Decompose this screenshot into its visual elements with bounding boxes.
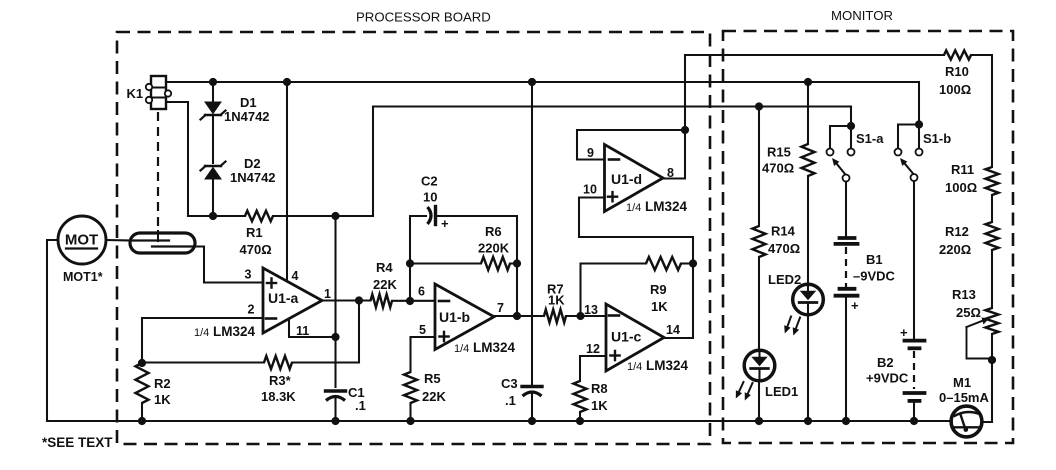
label R8 — [591, 381, 608, 396]
resistor R2 — [136, 363, 149, 403]
ground rail (bottom common) — [47, 420, 950, 422]
wire R6 branch right — [510, 262, 517, 264]
label B2 — [877, 355, 894, 370]
svg-text:R5: R5 — [424, 371, 441, 386]
wire motor to reed switch — [106, 239, 131, 242]
wire meter M1 top lead — [982, 360, 992, 422]
resistor R13 rheostat — [967, 308, 999, 359]
battery B2 — [900, 325, 925, 401]
svg-text:MOT: MOT — [65, 232, 98, 249]
label B2 value — [866, 371, 909, 386]
label R13 — [952, 287, 976, 302]
capacitor C3 — [522, 387, 542, 397]
wire U1-d pin 9 feedback — [577, 130, 685, 160]
wire R12-R13 link — [991, 250, 993, 308]
op-amp U1-d — [605, 145, 664, 212]
battery B1 — [836, 238, 860, 313]
svg-text:1/4: 1/4 — [626, 202, 641, 214]
junction V-/R1 rail — [331, 212, 339, 220]
svg-text:470Ω: 470Ω — [768, 241, 800, 256]
label R9 value — [651, 299, 668, 314]
label R5 value — [422, 389, 446, 404]
wire S1-a wiper to B1 — [845, 182, 847, 236]
svg-text:R13: R13 — [952, 287, 976, 302]
capacitor C1 — [326, 391, 346, 401]
LED2 emission arrows — [784, 317, 800, 336]
capacitor C2 — [428, 207, 450, 232]
label R6 — [485, 224, 502, 239]
svg-text:U1-c: U1-c — [611, 329, 642, 345]
resistor R14 — [753, 226, 766, 257]
svg-text:1K: 1K — [651, 299, 668, 314]
wire S1-b wiper to B2 — [913, 181, 915, 338]
wire R11-R12 link — [991, 195, 993, 222]
svg-text:100Ω: 100Ω — [939, 82, 971, 97]
reed switch — [130, 233, 195, 253]
label R3 value — [261, 389, 296, 404]
meter M1 — [951, 406, 982, 437]
pin 7 label U1-b — [497, 301, 504, 315]
junction output7/C2 — [513, 312, 521, 320]
svg-text:R2: R2 — [154, 376, 171, 391]
svg-text:10: 10 — [583, 183, 597, 197]
wire motor left lead to ground rail — [47, 240, 58, 421]
resistor R5 — [404, 372, 417, 403]
svg-text:R11: R11 — [951, 162, 974, 177]
label R2 — [154, 376, 171, 391]
pin 1 label U1-a — [324, 287, 331, 301]
svg-text:MOT1*: MOT1* — [63, 270, 103, 284]
label R4 value — [373, 277, 397, 292]
pin 9 label U1-d — [587, 146, 594, 160]
junction R6 right — [513, 259, 521, 267]
wire R2 to ground rail — [141, 403, 143, 421]
junction zener/V+ — [209, 78, 217, 86]
monitor title — [831, 8, 893, 23]
svg-text:D2: D2 — [244, 156, 261, 171]
junction B2/ground — [910, 417, 918, 425]
junction pin11/C1 — [331, 333, 339, 341]
label R14 value — [768, 241, 800, 256]
wire top supply rail from K1 to S1-b (net V+) — [166, 81, 919, 83]
svg-text:*SEE TEXT: *SEE TEXT — [42, 435, 113, 450]
junction R8/ground — [576, 417, 584, 425]
label R4 — [376, 260, 393, 275]
svg-text:1/4: 1/4 — [627, 361, 642, 373]
wire U1-b pin 5 to R5 — [411, 337, 436, 372]
wire U1-a output pin 1 — [322, 299, 371, 301]
svg-text:R15: R15 — [767, 145, 791, 160]
svg-text:22K: 22K — [422, 389, 446, 404]
svg-text:13: 13 — [584, 303, 598, 317]
junction B1/ground — [842, 417, 850, 425]
junction C1/ground — [331, 417, 339, 425]
label U1-a 1/4 LM324 — [194, 324, 256, 339]
svg-text:1N4742: 1N4742 — [224, 109, 270, 124]
junction R2/R3/pin2 — [138, 359, 146, 367]
junction S1-a feed — [847, 122, 855, 130]
pin 8 label U1-d — [667, 166, 674, 180]
wire B2 to ground rail — [913, 403, 915, 421]
svg-text:S1-a: S1-a — [856, 131, 884, 146]
wire U1-a pin 2 to R2 node — [142, 318, 263, 363]
label LED2 — [768, 272, 801, 287]
wire K1 lower contact to R1 rail — [166, 102, 188, 216]
svg-text:R8: R8 — [591, 381, 608, 396]
wire U1-d output pin 8 riser — [663, 55, 685, 179]
junction R9/pin10/output14 — [689, 259, 697, 267]
svg-text:D1: D1 — [240, 95, 257, 110]
wire R14 to LED1 — [758, 257, 760, 351]
wire S1-a feed drop — [850, 107, 852, 127]
wire U1-b output pin 7 — [494, 315, 544, 317]
label K1 — [127, 86, 144, 101]
switch S1-a — [827, 126, 855, 182]
label D1 value — [224, 109, 270, 124]
label R7 value — [548, 293, 565, 308]
wire C1 to ground rail — [334, 397, 336, 421]
svg-text:220Ω: 220Ω — [939, 242, 971, 257]
junction R6 left — [406, 259, 414, 267]
wire zener branch bottom lead — [212, 180, 214, 216]
svg-text:LM324: LM324 — [213, 324, 256, 339]
label C2 — [421, 174, 438, 189]
svg-text:220K: 220K — [478, 241, 510, 256]
label R5 — [424, 371, 441, 386]
relay K1 — [146, 76, 171, 109]
label R3* — [269, 373, 292, 388]
wire LED2 to ground rail — [807, 315, 809, 422]
wire riser to wire3 — [372, 107, 374, 217]
junction LED1/ground — [755, 417, 763, 425]
junction S1-b feed — [915, 120, 923, 128]
resistor R6 — [481, 257, 510, 270]
resistor R12 — [986, 222, 999, 250]
label D2 — [244, 156, 261, 171]
svg-text:R1: R1 — [246, 225, 263, 240]
pin 10 label U1-d — [583, 183, 597, 197]
resistor R10 — [944, 50, 971, 59]
svg-text:470Ω: 470Ω — [762, 161, 794, 176]
svg-text:LM324: LM324 — [645, 199, 688, 214]
svg-text:C2: C2 — [421, 174, 438, 189]
resistor R4 — [371, 294, 393, 307]
label R7 — [547, 282, 564, 297]
processor board dashed border — [117, 32, 710, 444]
wire U1-b pin6 node riser — [410, 216, 426, 301]
label U1-c — [611, 329, 642, 345]
junction LED2/ground — [804, 417, 812, 425]
wire B1 to ground rail — [845, 297, 847, 421]
wire S1-b feed drop — [918, 82, 920, 125]
svg-text:U1-b: U1-b — [439, 309, 470, 325]
svg-text:MONITOR: MONITOR — [831, 8, 893, 23]
svg-text:+: + — [441, 216, 449, 231]
svg-text:+: + — [900, 325, 908, 340]
label S1-a — [856, 131, 884, 146]
label R11 — [951, 162, 974, 177]
label M1 value — [939, 390, 989, 405]
label R10 — [945, 64, 969, 79]
svg-text:–9VDC: –9VDC — [853, 269, 896, 284]
pin 2 label U1-a — [248, 303, 255, 317]
wire C2 right lead — [437, 216, 517, 316]
wire R6 branch left — [410, 262, 481, 264]
wire R2 node to R3 — [142, 361, 264, 363]
label U1-b 1/4 LM324 — [454, 340, 516, 355]
svg-text:PROCESSOR BOARD: PROCESSOR BOARD — [356, 10, 491, 25]
wire R8 to ground rail — [579, 412, 581, 421]
svg-text:LED2: LED2 — [768, 272, 801, 287]
resistor R8 — [574, 381, 587, 412]
wire reed switch to U1-a pin 3 — [194, 247, 263, 283]
svg-text:18.3K: 18.3K — [261, 389, 296, 404]
svg-text:B1: B1 — [866, 252, 883, 267]
label C1 value — [355, 398, 366, 413]
label C2 value — [423, 190, 437, 205]
junction R5/ground — [406, 417, 414, 425]
wire C3 to ground rail — [531, 393, 533, 421]
label C1 — [348, 385, 365, 400]
svg-text:8: 8 — [667, 166, 674, 180]
svg-text:U1-d: U1-d — [611, 171, 642, 187]
svg-text:9: 9 — [587, 146, 594, 160]
svg-text:11: 11 — [296, 324, 309, 338]
svg-text:22K: 22K — [373, 277, 397, 292]
wire bypass drop to C3 — [531, 82, 533, 387]
svg-text:10: 10 — [423, 190, 437, 205]
junction R2/ground — [138, 417, 146, 425]
resistor R15 — [802, 144, 815, 176]
svg-text:K1: K1 — [127, 86, 144, 101]
pin 12 label U1-c — [586, 342, 600, 356]
svg-text:R9: R9 — [650, 282, 667, 297]
wire U1-c pin 12 to R8 — [580, 356, 606, 381]
mechanical link K1 to reed switch — [157, 112, 159, 241]
label U1-b — [439, 309, 470, 325]
wire V- vertical through C1 — [334, 216, 336, 387]
monitor dashed border — [723, 31, 1013, 443]
wire R15 to LED2 — [807, 176, 809, 285]
wire R3 to U1-a output node — [292, 301, 359, 363]
svg-text:12: 12 — [586, 342, 600, 356]
label R1 value — [240, 242, 272, 257]
svg-text:100Ω: 100Ω — [945, 180, 977, 195]
junction U1-a output/R3 — [355, 296, 363, 304]
svg-text:2: 2 — [248, 303, 255, 317]
label R8 value — [591, 398, 608, 413]
pin 11 label U1-a — [296, 324, 309, 338]
svg-text:LM324: LM324 — [473, 340, 516, 355]
svg-text:R4: R4 — [376, 260, 393, 275]
pin 6 label U1-b — [418, 285, 425, 299]
resistor R1 — [245, 211, 273, 221]
resistor R11 — [986, 167, 999, 195]
wire U1-d pin 10 loop — [579, 198, 693, 238]
op-amp U1-b — [435, 284, 494, 350]
svg-text:1K: 1K — [591, 398, 608, 413]
wire R9 node vertical — [692, 237, 694, 338]
resistor R3 — [264, 356, 292, 369]
svg-text:7: 7 — [497, 301, 504, 315]
svg-text:1/4: 1/4 — [194, 327, 209, 339]
label R15 value — [762, 161, 794, 176]
wire R4 to U1-b pin 6 — [392, 300, 435, 302]
svg-text:R3*: R3* — [269, 373, 292, 388]
svg-text:.1: .1 — [505, 393, 516, 408]
pin 13 label U1-c — [584, 303, 598, 317]
note see text — [42, 435, 113, 450]
svg-text:1K: 1K — [154, 392, 171, 407]
wire U1-c output pin 14 — [664, 337, 693, 339]
pin 3 label U1-a — [245, 268, 252, 282]
junction pin6 node — [406, 297, 414, 305]
label S1-b — [923, 131, 951, 146]
op-amp U1-c — [606, 304, 664, 371]
zener diode D1 — [201, 102, 226, 120]
label M1 — [953, 375, 971, 390]
LED2 — [793, 284, 824, 315]
svg-text:1K: 1K — [548, 293, 565, 308]
wire R5 to ground rail — [409, 403, 411, 421]
svg-text:0–15mA: 0–15mA — [939, 390, 989, 405]
svg-text:4: 4 — [292, 269, 299, 283]
svg-text:LED1: LED1 — [765, 384, 798, 399]
label C3 value — [505, 393, 516, 408]
LED1 emission arrows — [736, 382, 753, 401]
wire R1 rail mid segment — [273, 215, 373, 217]
processor board title — [356, 10, 491, 25]
wire R10 to right chain — [971, 55, 992, 167]
wire between D1 and D2 — [212, 117, 214, 163]
svg-text:R12: R12 — [945, 224, 969, 239]
label LED1 — [765, 384, 798, 399]
resistor R7 — [544, 310, 566, 323]
label R13 value — [956, 305, 981, 320]
svg-text:1N4742: 1N4742 — [230, 170, 276, 185]
svg-text:+: + — [851, 298, 859, 313]
label R9 — [650, 282, 667, 297]
junction pin4/V+ — [283, 78, 291, 86]
zener diode D2 — [201, 162, 226, 180]
wire U1-a pin 4 supply drop — [286, 82, 288, 280]
svg-text:+9VDC: +9VDC — [866, 371, 909, 386]
label R12 — [945, 224, 969, 239]
resistor R9 — [646, 257, 681, 270]
svg-text:25Ω: 25Ω — [956, 305, 981, 320]
LED1 — [744, 350, 775, 381]
label D1 — [240, 95, 257, 110]
svg-text:470Ω: 470Ω — [240, 242, 272, 257]
junction R14/wire3 — [755, 102, 763, 110]
pin 14 label U1-c — [666, 323, 680, 337]
op-amp U1-a — [263, 268, 322, 333]
svg-text:S1-b: S1-b — [923, 131, 951, 146]
label C3 — [501, 376, 518, 391]
svg-text:R14: R14 — [771, 224, 796, 239]
junction R15/V+ — [804, 78, 812, 86]
label D2 value — [230, 170, 276, 185]
svg-text:R6: R6 — [485, 224, 502, 239]
svg-text:U1-a: U1-a — [268, 290, 299, 306]
pin 4 label U1-a — [292, 269, 299, 283]
motor MOT1 — [58, 216, 106, 264]
wire R9 right lead — [681, 262, 693, 264]
label U1-a — [268, 290, 299, 306]
wire LED1 to ground rail — [758, 381, 760, 422]
svg-text:14: 14 — [666, 323, 680, 337]
svg-text:LM324: LM324 — [646, 358, 689, 373]
pin 5 label U1-b — [419, 323, 426, 337]
svg-text:5: 5 — [419, 323, 426, 337]
junction D2/R1 — [209, 212, 217, 220]
switch S1-b — [895, 125, 923, 182]
junction C3/ground — [528, 417, 536, 425]
wire monitor top feed (net VM) — [685, 54, 944, 56]
svg-text:1/4: 1/4 — [454, 343, 469, 355]
label U1-d — [611, 171, 642, 187]
label R1 — [246, 225, 263, 240]
label R14 — [771, 224, 796, 239]
wire R13 to wiper node — [991, 334, 993, 360]
wire R14 branch drop — [758, 107, 760, 227]
wire U1-a pin 11 — [289, 319, 336, 337]
wire pin13 node riser to R9 — [581, 264, 647, 317]
label B1 — [866, 252, 883, 267]
label R6 value — [478, 241, 510, 256]
junction C3/V+ — [528, 78, 536, 86]
wire mid rail to S1-a (net V2) — [373, 105, 851, 107]
label B1 value — [853, 269, 896, 284]
junction R7/R9 feedback — [576, 312, 584, 320]
label R10 value — [939, 82, 971, 97]
label R15 — [767, 145, 791, 160]
label R11 value — [945, 180, 977, 195]
svg-text:R10: R10 — [945, 64, 969, 79]
wire R15 branch drop — [807, 82, 809, 144]
label R12 value — [939, 242, 971, 257]
svg-text:1: 1 — [324, 287, 331, 301]
wire zener branch top lead — [212, 82, 214, 102]
label MOT1* — [63, 270, 103, 284]
label U1-d 1/4 LM324 — [626, 199, 688, 214]
svg-text:M1: M1 — [953, 375, 971, 390]
svg-text:B2: B2 — [877, 355, 894, 370]
junction U1-d feedback — [681, 126, 689, 134]
wire R1 rail left segment — [188, 215, 245, 217]
junction R13 wiper — [988, 356, 996, 364]
svg-text:3: 3 — [245, 268, 252, 282]
label R2 value — [154, 392, 171, 407]
label U1-c 1/4 LM324 — [627, 358, 689, 373]
svg-text:6: 6 — [418, 285, 425, 299]
svg-text:C3: C3 — [501, 376, 518, 391]
wire R7 to U1-c pin 13 — [566, 315, 606, 317]
svg-text:.1: .1 — [355, 398, 366, 413]
